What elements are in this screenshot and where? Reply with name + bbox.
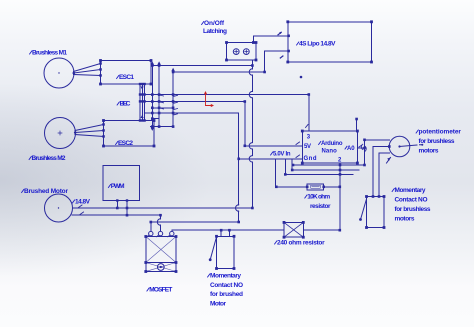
svg-text:A0: A0 — [347, 146, 355, 152]
svg-text:4S Lipo 14.8V: 4S Lipo 14.8V — [299, 41, 336, 48]
resistor R1 10K body — [307, 184, 324, 190]
wire BEC link 2 — [141, 84, 143, 121]
MOSFET bottom strip marks — [146, 263, 176, 272]
wire pot pin1 — [365, 140, 390, 165]
wire arduino top stub — [356, 119, 358, 131]
svg-text:5.0V In: 5.0V In — [273, 152, 291, 158]
MOSFET Q1 body — [146, 237, 176, 263]
mosfet pin hook 3 — [170, 231, 174, 235]
mosfet pin hook 1 — [149, 231, 153, 235]
wire rail R2 — [173, 71, 265, 73]
arduino nano U1 — [302, 131, 357, 163]
wire BEC link 1 — [139, 84, 141, 121]
wire rail R1 — [151, 65, 252, 67]
momentary switch (brushed) body — [217, 236, 235, 268]
wire momentary brushed stub 1 — [220, 230, 222, 236]
wire rail R6 into vertical V4 — [145, 112, 239, 114]
svg-text:Motor: Motor — [210, 300, 226, 307]
svg-text:Brushless M2: Brushless M2 — [32, 155, 66, 162]
svg-text:ESC2: ESC2 — [118, 140, 133, 147]
momentary switch (brushed) lever — [210, 237, 216, 260]
svg-text:Brushed Motor: Brushed Motor — [24, 188, 68, 195]
wire gnd drop V11 — [291, 159, 293, 170]
wire rail R3 to arduino D3 — [140, 95, 309, 131]
svg-text:Latching: Latching — [203, 28, 227, 35]
mosfet gate hop — [157, 219, 160, 225]
svg-text:14.8V: 14.8V — [75, 199, 91, 206]
MOSFET internal cross — [146, 237, 176, 263]
wire momentary brushed stub 2 — [228, 230, 230, 236]
wire arduino D2 drop — [339, 163, 341, 230]
wire M1 fan to ESC1 — [74, 64, 101, 76]
wire mosfet top rail — [151, 221, 239, 223]
resistor R2 240 ohm cross — [284, 222, 303, 237]
svg-text:MOSFET: MOSFET — [149, 287, 172, 294]
brushed motor — [45, 194, 73, 222]
svg-text:Momentary: Momentary — [210, 273, 241, 280]
wire 10K to D2 net — [324, 186, 340, 188]
brushless motor M1 — [44, 58, 74, 88]
wire Gnd feed — [239, 158, 303, 160]
mosfet pin hook 2 — [158, 231, 162, 235]
wire mosfet drain pin — [171, 230, 173, 231]
wire switch top to Lipo plus — [253, 36, 288, 43]
svg-text:10K ohm: 10K ohm — [307, 194, 330, 201]
svg-text:Gnd: Gnd — [304, 156, 317, 162]
wire ESC2 right links — [150, 119, 173, 127]
svg-text:Brushless M1: Brushless M1 — [32, 50, 67, 57]
resistor R2 240 ohm body — [284, 222, 303, 237]
wire A0 stub — [357, 147, 364, 149]
wire pot pin2 to momentary — [373, 147, 389, 197]
wire BEC link 3 — [144, 84, 146, 121]
svg-text:Arduino: Arduino — [321, 141, 343, 147]
wire gnd drop V10 — [284, 159, 286, 175]
wire motor feed 1 — [73, 207, 253, 209]
svg-text:Momentary: Momentary — [395, 187, 426, 194]
wire V4a drop — [238, 113, 240, 222]
svg-text:resistor: resistor — [310, 203, 331, 210]
wire mosfet gate drop — [160, 215, 162, 231]
battery 4S Lipo box — [288, 22, 372, 62]
svg-text:ESC1: ESC1 — [119, 74, 134, 81]
wire rail R5 — [152, 107, 173, 109]
wire 5V feed — [245, 145, 302, 147]
svg-text:3: 3 — [307, 135, 311, 141]
ESC2 — [104, 121, 155, 147]
wire bus vertical V2 — [172, 72, 174, 127]
on/off latching switch body — [227, 43, 257, 61]
wire 240 ohm net — [172, 229, 340, 231]
switch contact circle 2 — [243, 49, 249, 55]
svg-text:motors: motors — [395, 216, 415, 223]
wire PWM stub 1 — [116, 201, 118, 209]
potentiometer wiper arm — [400, 145, 422, 147]
svg-text:PWM: PWM — [111, 183, 125, 190]
svg-text:Contact NO: Contact NO — [395, 197, 428, 204]
potentiometer adjust arrow — [387, 158, 391, 164]
wire hop arcs — [249, 69, 252, 75]
svg-text:for brushless: for brushless — [419, 138, 455, 145]
wire Lipo minus — [265, 51, 289, 72]
svg-text:motors: motors — [419, 148, 439, 155]
MOSFET bottom strip — [146, 263, 176, 272]
stray vertex dot — [300, 76, 303, 79]
node M2 fan junction — [74, 131, 77, 134]
wire sub rail A — [293, 164, 365, 166]
svg-text:Contact NO: Contact NO — [210, 282, 243, 289]
wire sub rail B — [292, 169, 359, 171]
switch contact circle 1 — [233, 49, 239, 55]
svg-text:On/Off: On/Off — [204, 20, 225, 27]
momentary switch (brushless) lever — [361, 199, 367, 220]
svg-text:240 ohm resistor: 240 ohm resistor — [277, 240, 325, 247]
svg-text:potentiometer: potentiometer — [419, 129, 462, 136]
wire mosfet source pin — [150, 222, 152, 231]
svg-text:5V: 5V — [304, 144, 311, 150]
wire pot pin3 to momentary — [379, 153, 389, 197]
MOSFET indicator circle — [157, 264, 164, 271]
svg-text:Nano: Nano — [322, 149, 338, 155]
PWM module box — [103, 166, 140, 201]
potentiometer body — [389, 136, 410, 157]
wire motor feed 2 — [72, 214, 161, 216]
momentary switch (brushless) body — [367, 197, 385, 228]
node M1 fan junction — [73, 72, 76, 75]
wire bus vertical V1b — [158, 66, 160, 127]
wire rail R4 into vertical V4b — [140, 102, 245, 146]
svg-text:for brushless: for brushless — [395, 206, 431, 213]
ESC1 — [101, 61, 152, 85]
wire PWM stub 2 — [126, 201, 128, 216]
origin marker (red) — [204, 91, 214, 107]
svg-text:for brushed: for brushed — [210, 291, 243, 298]
wire gnd drop to 10K — [276, 159, 308, 187]
wire M2 fan to ESC2 — [75, 125, 104, 137]
wire switch drop V3 — [251, 60, 253, 208]
wire bus vertical V1a — [151, 66, 153, 127]
brushless motor M2 — [45, 118, 76, 149]
svg-text:BEC: BEC — [120, 101, 131, 108]
wire sub rail C — [285, 173, 353, 175]
